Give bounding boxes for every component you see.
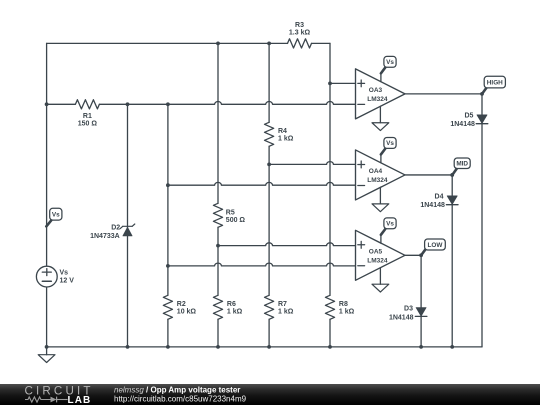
- svg-text:R7: R7: [278, 301, 287, 308]
- svg-text:R8: R8: [339, 301, 348, 308]
- svg-text:Vs: Vs: [386, 59, 394, 66]
- svg-text:D3: D3: [404, 306, 413, 313]
- svg-text:MID: MID: [456, 161, 468, 168]
- svg-text:1N4148: 1N4148: [450, 121, 475, 128]
- svg-text:R6: R6: [227, 301, 236, 308]
- svg-text:D5: D5: [464, 112, 473, 119]
- svg-text:Vs: Vs: [52, 211, 60, 218]
- svg-text:D2: D2: [111, 224, 120, 231]
- svg-text:Vs: Vs: [386, 140, 394, 147]
- svg-text:R4: R4: [278, 128, 287, 135]
- svg-text:12 V: 12 V: [60, 278, 75, 285]
- svg-text:LAB: LAB: [68, 395, 92, 405]
- svg-text:500 Ω: 500 Ω: [226, 217, 246, 224]
- svg-text:R2: R2: [177, 301, 186, 308]
- svg-text:1.3 kΩ: 1.3 kΩ: [289, 30, 311, 37]
- svg-text:1N4148: 1N4148: [420, 202, 445, 209]
- svg-text:1N4733A: 1N4733A: [90, 233, 120, 240]
- svg-text:Vs: Vs: [386, 221, 394, 228]
- svg-text:OA3: OA3: [369, 87, 383, 94]
- svg-text:1 kΩ: 1 kΩ: [278, 135, 294, 142]
- svg-text:OA5: OA5: [369, 249, 383, 256]
- svg-text:1 kΩ: 1 kΩ: [278, 308, 294, 315]
- svg-text:http://circuitlab.com/c85uw723: http://circuitlab.com/c85uw7233n4m9: [114, 395, 247, 404]
- svg-text:nelmssg / Opp Amp voltage test: nelmssg / Opp Amp voltage tester: [114, 386, 240, 395]
- svg-text:LM324: LM324: [367, 96, 388, 103]
- svg-text:LM324: LM324: [367, 177, 388, 184]
- svg-text:LM324: LM324: [367, 258, 388, 265]
- svg-text:10 kΩ: 10 kΩ: [177, 308, 197, 315]
- svg-text:150 Ω: 150 Ω: [78, 121, 98, 128]
- svg-text:1 kΩ: 1 kΩ: [339, 308, 355, 315]
- svg-text:R5: R5: [226, 209, 235, 216]
- svg-text:1 kΩ: 1 kΩ: [227, 308, 243, 315]
- svg-text:LOW: LOW: [427, 242, 443, 249]
- svg-text:D4: D4: [435, 193, 444, 200]
- svg-text:1N4148: 1N4148: [389, 314, 414, 321]
- svg-text:HIGH: HIGH: [487, 79, 503, 86]
- svg-text:R3: R3: [295, 22, 304, 29]
- svg-text:OA4: OA4: [369, 168, 383, 175]
- svg-text:R1: R1: [83, 113, 92, 120]
- svg-text:Vs: Vs: [60, 270, 69, 277]
